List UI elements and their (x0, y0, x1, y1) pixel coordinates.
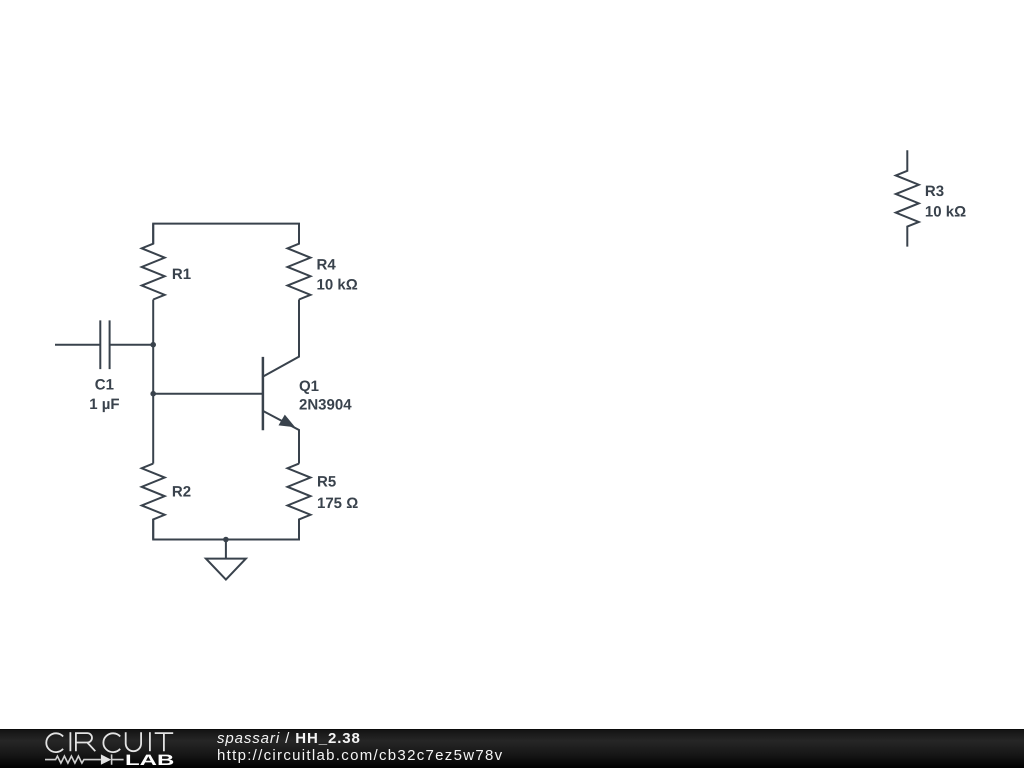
wire left column (152, 300, 154, 464)
svg-text:R3: R3 (925, 183, 944, 200)
logo letter T (155, 733, 174, 751)
svg-text:LAB: LAB (125, 752, 175, 768)
logo letter C (46, 733, 63, 752)
svg-text:R4: R4 (317, 257, 337, 274)
node B junction dot (150, 391, 156, 397)
logo diode triangle (101, 754, 111, 764)
svg-text:10 kΩ: 10 kΩ (317, 277, 358, 294)
wire collector (263, 300, 299, 377)
logo diode cathode (112, 754, 124, 764)
emitter arrow Q1 (279, 415, 296, 428)
logo letter C2 (103, 733, 120, 752)
logo letter R (76, 733, 95, 751)
wire emitter (263, 411, 299, 464)
resistor R5 (288, 464, 311, 540)
capacitor C1 (100, 320, 109, 369)
ground (206, 540, 246, 580)
resistor R1 (142, 224, 165, 300)
svg-text:2N3904: 2N3904 (299, 397, 352, 414)
logo letter U (126, 732, 141, 751)
wire base (153, 393, 263, 395)
logo letter I2 (149, 732, 151, 751)
footer bar (0, 729, 1024, 768)
node A junction dot (150, 342, 156, 348)
wire input left (55, 344, 100, 346)
wire bottom rail (153, 519, 299, 540)
resistor R3 (896, 150, 919, 246)
svg-text:R5: R5 (317, 474, 336, 491)
logo resistor (45, 756, 101, 763)
svg-text:R2: R2 (172, 484, 191, 501)
wire capacitor to node A (110, 344, 154, 346)
node ground junction dot (223, 537, 229, 543)
svg-text:175 Ω: 175 Ω (317, 495, 358, 512)
svg-text:1 µF: 1 µF (89, 396, 119, 413)
resistor R2 (142, 464, 165, 540)
logo letter I (69, 732, 71, 751)
CircuitLab logo (0, 729, 200, 768)
footer line 1 (217, 730, 361, 747)
transistor Q1 (262, 357, 265, 430)
svg-text:Q1: Q1 (299, 378, 319, 395)
resistor R4 (288, 224, 311, 300)
footer line 2 (217, 747, 503, 764)
svg-text:10 kΩ: 10 kΩ (925, 203, 966, 220)
svg-text:C1: C1 (95, 377, 114, 394)
svg-text:R1: R1 (172, 266, 191, 283)
wire top rail (153, 224, 299, 244)
